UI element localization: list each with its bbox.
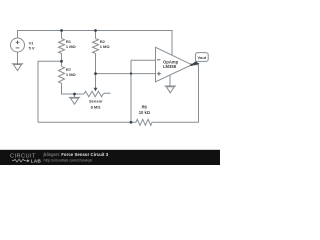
wire V1 bottom to ground <box>17 52 19 64</box>
wire op-amp plus input <box>96 73 156 75</box>
svg-text:1 MΩ: 1 MΩ <box>66 72 77 77</box>
CircuitLab logo zigzag <box>12 159 26 162</box>
wire sensor right stub <box>103 92 111 95</box>
wire node A branch to left rail <box>38 61 62 122</box>
op-amp U1 body <box>156 47 192 82</box>
V1 minus sign <box>16 47 20 49</box>
sensor wiper arrowhead <box>94 88 98 92</box>
wire op-amp output to Vout and down <box>192 65 199 123</box>
svg-text:8 MΩ: 8 MΩ <box>91 104 102 109</box>
ground below op-amp <box>165 86 177 93</box>
wire R1 bottom stub <box>61 54 63 62</box>
wire sensor ground stub <box>74 94 76 97</box>
resistor R1 <box>59 39 65 54</box>
junction node bottom rail feedback <box>130 121 133 124</box>
svg-text:LM358: LM358 <box>163 64 177 69</box>
CircuitLab logo diamond <box>26 159 29 162</box>
resistor R6 <box>136 119 152 125</box>
svg-text:http://circuitlab.com/c/9axkyb: http://circuitlab.com/c/9axkyb <box>44 158 93 162</box>
op-amp plus input sign <box>157 72 161 76</box>
wire minus node down to bottom rail <box>130 60 132 122</box>
svg-text:CIRCUIT: CIRCUIT <box>10 153 36 159</box>
wire R7 bottom to sensor row <box>62 83 85 94</box>
junction node op-amp output <box>191 63 193 65</box>
svg-text:5 V: 5 V <box>29 45 35 50</box>
wire top rail <box>18 31 173 56</box>
wire bottom rail left of R6 <box>38 121 136 123</box>
svg-text:Sensor: Sensor <box>89 99 103 104</box>
svg-text:Vout: Vout <box>198 55 207 60</box>
wire bottom rail right of R6 <box>152 121 199 123</box>
watermark bar <box>0 150 220 165</box>
wire R7 top stub <box>61 61 63 66</box>
resistor R7 <box>59 66 65 83</box>
ground below sensor row <box>69 97 81 104</box>
junction node R1 top <box>60 29 63 32</box>
V1 plus sign <box>16 41 20 45</box>
Vout flag box <box>195 53 208 62</box>
wire R1 top stub <box>61 31 63 39</box>
wire op-amp minus input <box>131 59 156 61</box>
junction node A between R1 and R7 <box>60 60 63 63</box>
svg-text:jklingert: Force Sensor Circui: jklingert: Force Sensor Circuit 3 <box>43 152 109 157</box>
junction node R2 top <box>94 29 97 32</box>
svg-text:10 kΩ: 10 kΩ <box>139 110 151 115</box>
junction node sensor wiper branch <box>94 72 97 75</box>
junction node crossing at minus branch <box>130 72 132 74</box>
svg-text:1 MΩ: 1 MΩ <box>66 44 77 49</box>
voltage source V1 circle <box>11 38 25 52</box>
junction node sensor ground <box>73 93 76 96</box>
variable resistor Sensor <box>84 91 103 97</box>
wire op-amp negative supply pin <box>169 75 171 86</box>
svg-text:R6: R6 <box>142 104 148 109</box>
resistor R2 <box>93 39 99 54</box>
svg-text:LAB: LAB <box>31 159 42 165</box>
wire R2 bottom to sensor wiper <box>95 54 97 89</box>
wire R2 top stub <box>95 31 97 39</box>
ground below V1 <box>12 64 24 71</box>
svg-text:1 MΩ: 1 MΩ <box>100 44 111 49</box>
Vout flag pointer <box>189 61 199 66</box>
op-amp minus input sign <box>157 59 161 61</box>
